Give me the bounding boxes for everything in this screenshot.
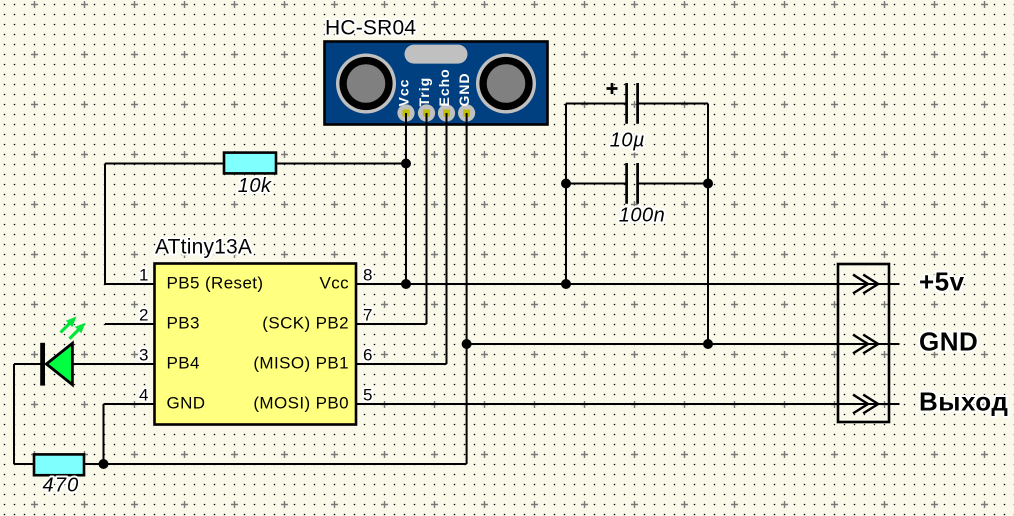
svg-text:6: 6 — [363, 346, 372, 365]
svg-text:470: 470 — [43, 475, 80, 497]
svg-text:PB4: PB4 — [167, 354, 200, 373]
svg-text:GND: GND — [167, 394, 206, 413]
svg-text:1: 1 — [139, 266, 148, 285]
svg-text:+5v: +5v — [919, 267, 965, 297]
svg-text:GND: GND — [456, 72, 472, 106]
svg-text:HC-SR04: HC-SR04 — [325, 17, 416, 40]
svg-text:(MISO) PB1: (MISO) PB1 — [253, 354, 349, 373]
svg-text:3: 3 — [139, 346, 148, 365]
svg-text:(SCK) PB2: (SCK) PB2 — [262, 314, 349, 333]
svg-text:GND: GND — [919, 327, 978, 357]
svg-text:Выход: Выход — [919, 387, 1008, 417]
svg-text:100n: 100n — [619, 205, 666, 227]
svg-text:5: 5 — [363, 386, 372, 405]
svg-text:8: 8 — [363, 266, 372, 285]
svg-text:10µ: 10µ — [610, 130, 645, 152]
svg-text:4: 4 — [139, 386, 148, 405]
svg-text:PB3: PB3 — [167, 314, 200, 333]
svg-text:Trig: Trig — [416, 77, 432, 107]
svg-text:7: 7 — [363, 306, 372, 325]
svg-text:2: 2 — [139, 306, 148, 325]
svg-text:Echo: Echo — [436, 68, 452, 106]
svg-text:PB5 (Reset): PB5 (Reset) — [167, 274, 264, 293]
svg-text:ATtiny13A: ATtiny13A — [155, 236, 252, 259]
svg-text:(MOSI) PB0: (MOSI) PB0 — [253, 394, 349, 413]
svg-text:Vcc: Vcc — [395, 79, 411, 107]
svg-text:Vcc: Vcc — [319, 274, 349, 293]
svg-text:10k: 10k — [238, 175, 272, 197]
